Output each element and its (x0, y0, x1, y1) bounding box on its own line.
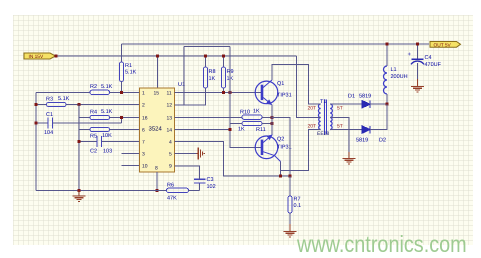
wire: Q1 emitter drop to R10/R11 node and Q2 emitter (271, 105, 273, 135)
svg-text:IN 15V: IN 15V (29, 54, 44, 60)
node: mid rail / ground run (78, 189, 81, 192)
resistor R9 (1K, vertical) on pin11 row (221, 56, 233, 92)
svg-text:200UH: 200UH (391, 74, 408, 80)
resistor R4 (5.1K, horizontal) (90, 109, 113, 120)
port IN 15V (24, 53, 57, 60)
svg-text:4: 4 (169, 140, 172, 146)
wire: pin1 row from left rail corner through R2 to IC pin 1 (36, 91, 140, 93)
svg-text:C4: C4 (425, 55, 432, 61)
capacitor C4 (470UF polarized) (408, 44, 442, 79)
resistor R8 (1K, vertical) on pin12 (175, 56, 216, 105)
node: left rail / R3 (35, 103, 38, 106)
svg-text:R2: R2 (90, 84, 97, 90)
svg-text:+: + (408, 52, 412, 58)
resistor R11 (1K, horizontal) (230, 121, 272, 133)
wire: ground rail left (vertical x=36) (35, 92, 37, 190)
svg-text:1: 1 (142, 90, 145, 96)
svg-text:R7: R7 (294, 197, 301, 203)
svg-text:6: 6 (142, 128, 145, 134)
node: R4 right junction with C1 riser (120, 116, 123, 119)
wire: pin11 row to Q1 base (175, 91, 263, 93)
capacitor C1 (104) (36, 112, 121, 136)
svg-text:L1: L1 (391, 67, 397, 73)
ground: R7 ground (284, 224, 297, 237)
svg-text:5T: 5T (337, 106, 343, 112)
node: R9 bottom on pin11 row (222, 91, 225, 94)
svg-text:7: 7 (142, 140, 145, 146)
svg-text:5.1K: 5.1K (125, 70, 137, 76)
wire: C1 right riser to pin16 row (120, 118, 122, 123)
svg-text:1K: 1K (209, 76, 216, 82)
svg-text:10: 10 (142, 164, 148, 170)
svg-text:Q2: Q2 (277, 137, 284, 143)
svg-text:20T: 20T (308, 124, 317, 130)
svg-text:8: 8 (155, 166, 158, 172)
wire: pin3 stub (122, 153, 140, 155)
svg-text:R6: R6 (167, 183, 174, 189)
svg-text:C1: C1 (46, 112, 53, 118)
node: IN rail / R9 (222, 55, 225, 58)
ground: secondary center tap ground (343, 152, 356, 164)
node: left rail / C1 (35, 121, 38, 124)
svg-text:R10: R10 (240, 110, 250, 116)
wire: secondary bottom to D2 (333, 129, 362, 131)
svg-text:0.1: 0.1 (294, 203, 302, 209)
wire: IN 15V rail (55, 55, 297, 57)
resistor R1 (5.1K, vertical) (119, 44, 136, 92)
wire: secondary top to D1 (333, 103, 362, 105)
wire: W vertical from rail B to Q2 base (230, 47, 262, 148)
svg-text:OUT 5V: OUT 5V (434, 42, 452, 48)
svg-text:16: 16 (142, 116, 148, 122)
svg-text:TIP31: TIP31 (277, 93, 292, 99)
resistor R5 (10K, horizontal) (90, 127, 112, 139)
node: pin14 / W junction (229, 128, 232, 131)
inductor L1 (200UH, vertical) (384, 44, 408, 103)
svg-text:470UF: 470UF (425, 62, 442, 68)
svg-text:1K: 1K (253, 109, 260, 115)
wire: pin14 row to W (175, 129, 231, 131)
svg-text:1K: 1K (238, 127, 245, 133)
wire: IN rail drop to T1 center tap (297, 56, 319, 118)
svg-text:T1: T1 (320, 99, 326, 105)
svg-text:5819: 5819 (356, 138, 368, 144)
svg-text:Q1: Q1 (277, 81, 284, 87)
svg-text:5.1K: 5.1K (58, 96, 70, 102)
diode D2 (5819) (356, 104, 387, 143)
wire: pin6 row R5 to IC pin 6 (79, 129, 140, 131)
resistor R10 (1K, horizontal) (240, 109, 272, 120)
svg-text:R3: R3 (46, 97, 53, 103)
svg-text:EE28: EE28 (317, 131, 329, 137)
node: R10 right / Q1 emitter (271, 116, 274, 119)
wire: Q2 collector drop to R7 rail (280, 162, 282, 177)
transistor Q1 (TIP31 NPN) (255, 80, 278, 105)
svg-text:5.1K: 5.1K (101, 109, 113, 115)
wire: pin13 row to R10 (175, 117, 243, 119)
svg-text:3524: 3524 (149, 126, 163, 133)
node: Q2 collector / R7 rail (279, 175, 282, 178)
node: R11 right / Q2 emitter (271, 122, 274, 125)
svg-text:14: 14 (167, 128, 173, 134)
node: R7 top node (289, 175, 292, 178)
svg-text:TIP31: TIP31 (277, 145, 292, 151)
node: mid rail / C2 (78, 140, 81, 143)
op-amp U1 SG3524 IC body (140, 82, 186, 172)
svg-text:10K: 10K (102, 133, 112, 139)
svg-text:C2: C2 (90, 149, 97, 155)
node: junction IN rail / IC VIN (156, 55, 159, 58)
wire: rail B from pin12 riser to W vertical (184, 46, 230, 48)
wire: pin12 stub and riser to rail B (175, 47, 185, 106)
svg-text:47K: 47K (167, 196, 177, 202)
resistor R2 (5.1K, horizontal) (90, 84, 113, 95)
wire: IC VIN drop from IN rail to pin15 (157, 56, 159, 88)
ground: C4 ground (411, 79, 424, 92)
wire: pin8 ground drop (156, 172, 158, 190)
svg-text:5: 5 (169, 152, 172, 158)
node: rail A / L1 (386, 43, 389, 46)
wire: emitter output node drop to R7 column (272, 118, 290, 176)
wire: bottom ground run (36, 189, 167, 191)
svg-text:12: 12 (167, 103, 173, 109)
wire: Q1 collector riser and run to T1 primary top (272, 65, 318, 105)
wire: pin4 run down and right to R7 node (175, 142, 291, 176)
svg-text:20T: 20T (308, 106, 317, 112)
svg-text:R11: R11 (256, 127, 266, 133)
svg-text:R4: R4 (90, 110, 97, 116)
capacitor C2 (103) on pin7 row (79, 136, 140, 155)
node: rail A / C4 (416, 43, 419, 46)
resistor R3 (5.1K, horizontal) (46, 96, 70, 107)
svg-text:R8: R8 (209, 69, 216, 75)
svg-text:103: 103 (103, 149, 112, 155)
svg-text:R1: R1 (125, 63, 132, 69)
svg-text:C3: C3 (207, 177, 214, 183)
svg-text:9: 9 (169, 164, 172, 170)
svg-text:R5: R5 (90, 134, 97, 140)
diode D1 (5819) (348, 94, 387, 109)
wire: mid ground rail (vertical x=79) (78, 105, 80, 191)
svg-text:13: 13 (167, 116, 173, 122)
wire: pin16 row R4 to IC pin 16 (79, 117, 140, 119)
wire: secondary center tap to ground (333, 118, 349, 153)
node: pin8 / ground wire (156, 189, 159, 192)
node: IN rail / R8 (204, 55, 207, 58)
port OUT 5V (430, 42, 461, 49)
node: rectifier output node (386, 103, 389, 106)
wire: pin10 stub (122, 165, 140, 167)
resistor R6 (47K, horizontal) (167, 183, 200, 202)
wire: feedback rail A from R1 top to OUT node (122, 43, 430, 45)
node: R1 bottom junction on pin1 row (120, 91, 123, 94)
transistor Q2 (TIP31 PNP-style, emitter up) (255, 135, 280, 162)
svg-text:5.1K: 5.1K (101, 84, 113, 90)
ground: pin5 sideways ground (175, 148, 205, 160)
wire: return rail to T1 primary bottom riser (281, 130, 319, 171)
svg-text:11: 11 (167, 90, 172, 96)
svg-text:3: 3 (142, 152, 145, 158)
capacitor C3 (102) on pin9 leg (175, 166, 216, 190)
transformer T1 (EE28, 20T/20T : 5T/5T) (308, 99, 343, 137)
svg-text:102: 102 (207, 184, 216, 190)
svg-text:2: 2 (142, 103, 145, 109)
svg-text:15: 15 (154, 90, 160, 96)
ground: bottom-left ground symbol (73, 190, 86, 201)
svg-text:D2: D2 (379, 138, 386, 144)
wire: pin2 row R3 to IC pin 2 (36, 104, 140, 106)
node: W vertical on pin11 row (229, 91, 232, 94)
resistor R7 (0.1, vertical sense) (288, 176, 301, 224)
svg-text:D1: D1 (348, 94, 355, 100)
svg-text:104: 104 (44, 130, 53, 136)
node: R3 right / mid rail (78, 103, 81, 106)
svg-text:5T: 5T (337, 124, 343, 130)
svg-text:5819: 5819 (359, 94, 371, 100)
